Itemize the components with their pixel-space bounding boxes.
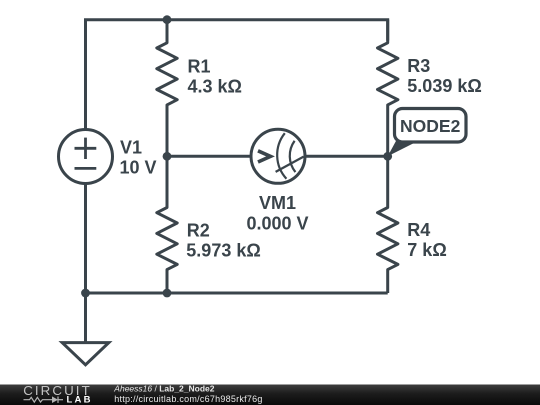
svg-text:NODE2: NODE2 [400, 116, 461, 136]
svg-text:R4: R4 [407, 220, 430, 240]
svg-text:LAB: LAB [67, 394, 93, 405]
svg-text:R3: R3 [407, 56, 430, 76]
svg-text:0.000 V: 0.000 V [246, 213, 308, 233]
svg-text:7 kΩ: 7 kΩ [407, 240, 446, 260]
svg-text:5.973 kΩ: 5.973 kΩ [186, 241, 260, 261]
svg-text:VM1: VM1 [259, 193, 296, 213]
svg-text:5.039 kΩ: 5.039 kΩ [407, 76, 482, 96]
svg-text:R1: R1 [188, 56, 211, 76]
svg-text:Aheess16 / Lab_2_Node2: Aheess16 / Lab_2_Node2 [113, 383, 214, 393]
svg-text:R2: R2 [187, 220, 210, 240]
svg-text:http://circuitlab.com/c67h985r: http://circuitlab.com/c67h985rkf76g [114, 394, 262, 404]
svg-text:10 V: 10 V [120, 157, 157, 177]
svg-text:V1: V1 [120, 137, 142, 157]
svg-text:4.3 kΩ: 4.3 kΩ [188, 76, 242, 96]
